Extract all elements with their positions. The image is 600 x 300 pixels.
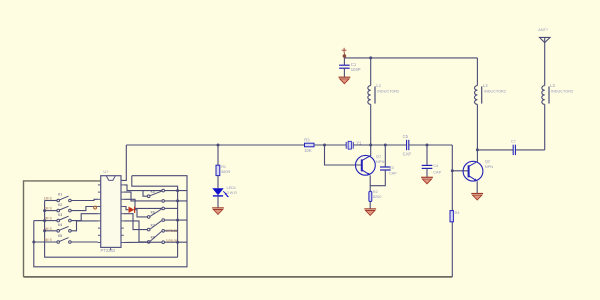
svg-text:560R: 560R bbox=[221, 170, 230, 174]
svg-text:R3: R3 bbox=[304, 137, 310, 142]
svg-text:104P: 104P bbox=[351, 67, 361, 72]
svg-text:8200: 8200 bbox=[373, 195, 381, 199]
svg-text:K5: K5 bbox=[58, 234, 62, 238]
svg-text:R1: R1 bbox=[221, 165, 226, 169]
svg-text:L1: L1 bbox=[376, 83, 381, 88]
svg-text:CAP: CAP bbox=[433, 171, 441, 175]
svg-text:K3: K3 bbox=[58, 213, 62, 217]
svg-text:U?: U? bbox=[103, 169, 109, 174]
svg-text:K7: K7 bbox=[151, 223, 155, 227]
svg-text:INDUCTOR2: INDUCTOR2 bbox=[551, 90, 573, 94]
svg-text:PT2262: PT2262 bbox=[101, 248, 116, 253]
svg-text:Q2: Q2 bbox=[485, 159, 491, 164]
svg-text:C3: C3 bbox=[389, 166, 394, 170]
svg-text:K1: K1 bbox=[58, 193, 62, 197]
svg-text:CAP: CAP bbox=[403, 151, 412, 156]
svg-text:L2: L2 bbox=[483, 83, 488, 88]
svg-text:NPN: NPN bbox=[485, 164, 494, 169]
svg-text:LED1: LED1 bbox=[227, 186, 237, 190]
svg-text:R2: R2 bbox=[373, 190, 378, 194]
svg-text:3 W.R: 3 W.R bbox=[227, 191, 238, 195]
svg-text:C7: C7 bbox=[511, 140, 516, 144]
svg-text:10K: 10K bbox=[304, 148, 312, 153]
svg-text:INDUCTOR2: INDUCTOR2 bbox=[377, 90, 399, 94]
svg-text:3 PB.05: 3 PB.05 bbox=[166, 239, 178, 243]
svg-text:K4: K4 bbox=[58, 223, 62, 227]
svg-text:L3: L3 bbox=[550, 83, 555, 88]
svg-text:Q1: Q1 bbox=[376, 153, 382, 158]
svg-text:R4: R4 bbox=[455, 211, 460, 215]
svg-text:K2: K2 bbox=[58, 203, 62, 207]
svg-text:K8: K8 bbox=[151, 236, 155, 240]
svg-text:C5: C5 bbox=[403, 134, 409, 139]
svg-text:K6: K6 bbox=[151, 211, 155, 215]
svg-text:ANT?: ANT? bbox=[538, 28, 548, 32]
svg-text:5M S: 5M S bbox=[44, 238, 53, 242]
svg-text:NPN: NPN bbox=[376, 159, 385, 164]
svg-text:INDUCTOR2: INDUCTOR2 bbox=[484, 90, 506, 94]
svg-text:1M S: 1M S bbox=[44, 197, 53, 201]
svg-text:3 PB.05: 3 PB.05 bbox=[166, 229, 178, 233]
svg-text:CAP: CAP bbox=[389, 172, 397, 176]
svg-text:C4: C4 bbox=[433, 164, 438, 168]
